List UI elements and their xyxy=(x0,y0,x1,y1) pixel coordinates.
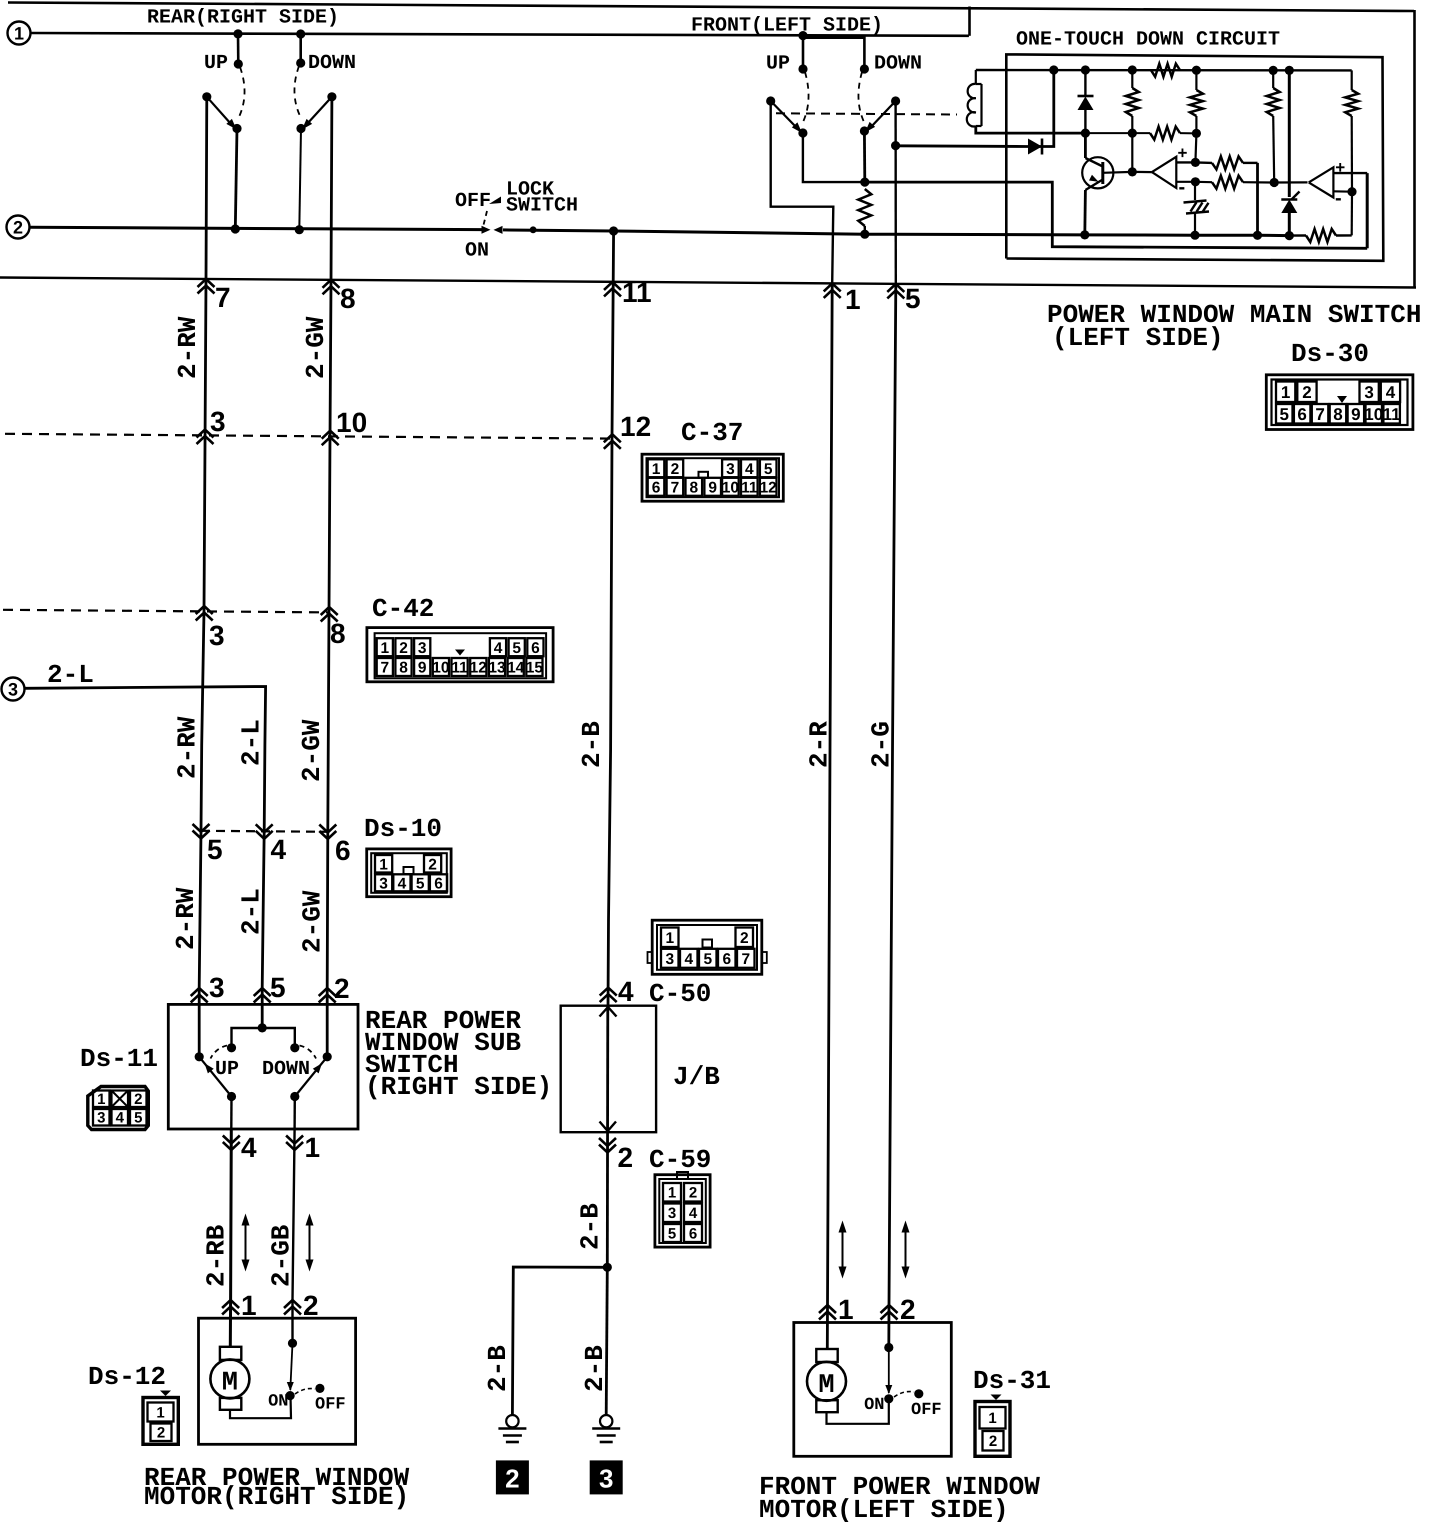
svg-text:5: 5 xyxy=(512,640,521,657)
svg-text:3: 3 xyxy=(726,461,735,478)
connector Ds-12 xyxy=(160,1391,171,1397)
svg-text:3: 3 xyxy=(209,620,225,651)
svg-text:1: 1 xyxy=(652,461,661,478)
svg-text:14: 14 xyxy=(507,660,525,677)
wire - 2-B to ground 3 xyxy=(606,1267,607,1414)
svg-text:13: 13 xyxy=(488,660,506,677)
wire 2-L - terminal 3 wire xyxy=(25,687,266,1028)
connector Ds-31 xyxy=(991,1395,1002,1401)
svg-text:11: 11 xyxy=(741,479,758,496)
svg-text:2: 2 xyxy=(399,640,408,657)
wire - rear UP contact to line 2 xyxy=(232,124,241,133)
svg-text:+: + xyxy=(1178,144,1188,163)
svg-text:8: 8 xyxy=(340,283,356,314)
wire - top border of main switch assembly xyxy=(8,3,1414,12)
node - rail junctions xyxy=(1049,65,1058,74)
svg-text:4: 4 xyxy=(241,1132,257,1163)
motor M2 - front window motor xyxy=(816,1349,837,1362)
op-amp U2 - comparator 2 xyxy=(1309,167,1334,197)
wire - front motor return loop xyxy=(827,1399,889,1424)
svg-text:11: 11 xyxy=(622,277,652,308)
svg-text:UP: UP xyxy=(215,1058,239,1081)
wire - bus line 2 xyxy=(30,227,482,229)
connector Ds-10 xyxy=(367,849,451,897)
svg-text:2-RB: 2-RB xyxy=(202,1224,232,1287)
wire - U2 minus input xyxy=(1333,190,1352,193)
sub-switch pin 3 chevron xyxy=(191,988,208,996)
svg-text:UP: UP xyxy=(766,53,790,76)
wire - R5 return to ground rail xyxy=(1256,163,1259,235)
svg-text:Ds-30: Ds-30 xyxy=(1291,339,1369,369)
wire - junction row to comparator network xyxy=(1085,132,1150,134)
pin 11 chevron xyxy=(604,282,621,290)
switch blade - front DOWN xyxy=(891,96,900,105)
svg-text:5: 5 xyxy=(764,461,773,478)
wire - transistor emitter column to line 2 xyxy=(1083,190,1086,235)
wire - bus line 1 xyxy=(31,33,969,36)
svg-text:10: 10 xyxy=(336,407,367,438)
wire - sub switch feed bar xyxy=(232,1028,295,1048)
svg-text:9: 9 xyxy=(418,660,427,677)
svg-text:OFF: OFF xyxy=(315,1396,346,1415)
wire - rear motor return loop xyxy=(230,1396,291,1419)
sub-switch pin 4 chevron xyxy=(223,1142,240,1150)
svg-text:1: 1 xyxy=(1281,383,1290,402)
wire - rear DOWN contact to line 2 xyxy=(296,124,305,133)
svg-text:7: 7 xyxy=(671,479,680,496)
svg-text:2: 2 xyxy=(989,1433,997,1450)
svg-text:2-B: 2-B xyxy=(576,1203,606,1250)
node - emitter column on line 2 xyxy=(1080,230,1089,239)
svg-text:2-RW: 2-RW xyxy=(173,316,203,379)
svg-text:2-RW: 2-RW xyxy=(173,716,203,779)
svg-text:3: 3 xyxy=(8,680,18,700)
wire 2-GW - rear down wire (pin 8) xyxy=(327,97,332,1057)
node - junction on line 2 xyxy=(231,224,240,233)
ground 3 xyxy=(600,1415,612,1427)
node - front DOWN fixed contact xyxy=(860,64,869,73)
node - resistor to line 2 xyxy=(860,230,869,239)
wire - U2 plus input from divider xyxy=(1333,172,1367,174)
svg-text:ON: ON xyxy=(465,240,489,263)
svg-text:5: 5 xyxy=(703,951,712,968)
box - junction block J/B xyxy=(561,1006,656,1132)
svg-text:M: M xyxy=(818,1371,834,1401)
svg-text:12: 12 xyxy=(470,660,487,677)
svg-text:3: 3 xyxy=(418,640,427,657)
svg-text:8: 8 xyxy=(399,660,408,677)
wire - minus column to bottom resistor xyxy=(1351,192,1354,236)
svg-text:10: 10 xyxy=(722,479,739,496)
svg-text:4: 4 xyxy=(116,1110,125,1127)
rear motor pin 2 chevron xyxy=(284,1300,301,1308)
svg-text:2-B: 2-B xyxy=(483,1345,513,1392)
svg-text:2-GB: 2-GB xyxy=(267,1224,297,1287)
svg-text:12: 12 xyxy=(620,411,651,442)
wire - front DOWN pivot down to pin 5 xyxy=(894,101,897,287)
wire - front motor breaker branch xyxy=(888,1348,890,1394)
svg-text:7: 7 xyxy=(215,282,231,313)
wire - dashed arc rear DOWN xyxy=(294,66,301,118)
switch blade - rear UP xyxy=(202,92,211,101)
svg-text:11: 11 xyxy=(451,660,468,677)
svg-text:2-B: 2-B xyxy=(580,1345,610,1392)
svg-text:Ds-10: Ds-10 xyxy=(364,814,442,844)
wire - 2-B branch to ground 2 xyxy=(512,1267,607,1415)
svg-text:C-59: C-59 xyxy=(649,1145,711,1175)
node - 2-B ground split xyxy=(603,1263,612,1272)
svg-text:4: 4 xyxy=(618,976,634,1007)
svg-text:1: 1 xyxy=(845,284,861,315)
wire - junction to one-touch circuit feed xyxy=(865,182,1367,248)
node - rear motor pin2 junction xyxy=(288,1339,297,1348)
svg-text:4: 4 xyxy=(745,461,754,478)
svg-text:5: 5 xyxy=(1280,405,1289,424)
op-amp U1 - comparator (output to base) xyxy=(1152,157,1176,188)
svg-text:3: 3 xyxy=(210,406,226,437)
diode D1 - feed diode xyxy=(1028,139,1042,155)
wire 2-RB - to rear motor pin 1 xyxy=(230,1129,231,1347)
node - front feed junction on line 1 xyxy=(798,31,807,40)
svg-text:M: M xyxy=(222,1369,238,1399)
svg-text:(LEFT SIDE): (LEFT SIDE) xyxy=(1052,323,1224,353)
wire - mechanical link to one-touch coil (dashed) xyxy=(776,113,957,114)
svg-text:2: 2 xyxy=(428,856,437,873)
svg-text:FRONT(LEFT SIDE): FRONT(LEFT SIDE) xyxy=(691,15,883,38)
connector Ds-11 xyxy=(88,1087,149,1130)
svg-text:1: 1 xyxy=(97,1091,105,1108)
C-50 chevron pin 4 xyxy=(600,988,617,996)
svg-text:9: 9 xyxy=(1351,405,1360,424)
switch - rear motor thermal OFF contact xyxy=(315,1384,324,1393)
resistor R8 - rail right column xyxy=(1351,70,1353,90)
wire 2-B - black ground wire from line 2 xyxy=(609,226,618,235)
wire - dashed pointer to lock switch xyxy=(484,211,488,225)
sub-switch pin 5 chevron xyxy=(254,988,271,996)
pin 7 chevron xyxy=(198,279,215,287)
node 2 - circled terminal 2 xyxy=(7,216,30,239)
svg-text:6: 6 xyxy=(335,835,351,866)
wire - dashed arc sub UP xyxy=(211,1046,228,1059)
wire 2-GB - to rear motor pin 2 xyxy=(293,1129,295,1343)
svg-text:2: 2 xyxy=(689,1185,697,1202)
svg-text:2-GW: 2-GW xyxy=(301,316,331,379)
svg-text:2-RW: 2-RW xyxy=(171,887,201,950)
svg-text:1: 1 xyxy=(14,24,24,44)
wire - tap to one-touch diode xyxy=(896,144,1026,147)
connector Ds-30 xyxy=(1266,375,1413,430)
connector C-42 xyxy=(367,628,553,682)
svg-text:Ds-31: Ds-31 xyxy=(973,1366,1051,1396)
wire - front UP pivot to pin 1 xyxy=(771,101,834,283)
svg-text:5: 5 xyxy=(668,1225,676,1242)
svg-text:OFF: OFF xyxy=(911,1401,942,1420)
svg-text:C-42: C-42 xyxy=(372,594,434,624)
crystal X1 - timing element marker xyxy=(1194,182,1196,200)
svg-text:2: 2 xyxy=(900,1294,916,1325)
svg-text:DOWN: DOWN xyxy=(262,1058,310,1081)
C-37 pass chevron pin 3 xyxy=(197,430,214,438)
node - rear DOWN fixed contact xyxy=(296,58,305,67)
motor M1 - rear window motor xyxy=(220,1347,241,1360)
svg-text:2: 2 xyxy=(303,1290,319,1321)
svg-text:3: 3 xyxy=(665,951,674,968)
svg-text:OFF: OFF xyxy=(455,190,491,213)
svg-text:ON: ON xyxy=(268,1393,288,1412)
svg-text:7: 7 xyxy=(380,660,389,677)
C-37 pass chevron pin 12 xyxy=(604,434,621,442)
node - junction on line 2 xyxy=(295,225,304,234)
sub-switch pin 2 chevron xyxy=(319,988,336,996)
svg-text:REAR(RIGHT SIDE): REAR(RIGHT SIDE) xyxy=(147,7,339,30)
node - clamp diode to coil lead xyxy=(1081,129,1090,138)
svg-text:11: 11 xyxy=(1383,405,1401,424)
svg-text:5: 5 xyxy=(270,972,286,1003)
svg-text:J/B: J/B xyxy=(673,1062,720,1092)
svg-text:MOTOR(LEFT SIDE): MOTOR(LEFT SIDE) xyxy=(759,1495,1009,1522)
svg-text:8: 8 xyxy=(1333,405,1342,424)
diode D2 - clamp diode on rail xyxy=(1084,70,1086,96)
box - rear power window sub switch xyxy=(168,1004,358,1129)
svg-text:1: 1 xyxy=(988,1410,996,1427)
svg-text:ONE-TOUCH DOWN CIRCUIT: ONE-TOUCH DOWN CIRCUIT xyxy=(1016,29,1280,52)
svg-text:10: 10 xyxy=(432,660,449,677)
C-37 pass chevron pin 10 xyxy=(322,431,339,439)
wire - dashed arc rear UP xyxy=(238,67,245,119)
pointer flag - lock switch OFF position xyxy=(489,197,501,205)
wire - thick column D from rail to zener xyxy=(1288,70,1291,197)
svg-text:1: 1 xyxy=(305,1132,321,1163)
Ds-10 chevron pin 4 xyxy=(256,831,273,839)
node - front motor pin2 junction xyxy=(884,1343,893,1352)
svg-text:5: 5 xyxy=(207,834,223,865)
transistor Q1 - one-touch driver (PNP) xyxy=(1082,157,1113,188)
wire - dashed arc sub DOWN xyxy=(300,1046,317,1059)
node - rear DOWN feed junction on line 1 xyxy=(296,29,305,38)
wire - section divider below main switch xyxy=(0,278,1416,288)
node - rear UP fixed contact xyxy=(234,59,243,68)
svg-text:15: 15 xyxy=(526,660,544,677)
resistor R3 - horizontal at junction row xyxy=(1150,127,1180,140)
wire - transistor base lead xyxy=(1103,171,1133,174)
svg-text:7: 7 xyxy=(741,951,750,968)
J/B exit chevron xyxy=(600,1122,617,1132)
svg-text:2: 2 xyxy=(671,461,680,478)
svg-text:5: 5 xyxy=(134,1110,142,1127)
direction arrow (2-RB) xyxy=(245,1222,247,1263)
svg-text:2-B: 2-B xyxy=(577,721,607,768)
wire - front DOWN contact down to junction xyxy=(860,126,869,135)
svg-text:3: 3 xyxy=(1364,383,1373,402)
svg-text:4: 4 xyxy=(684,951,693,968)
switch blade - sub DOWN xyxy=(323,1052,332,1061)
svg-text:7: 7 xyxy=(1315,405,1324,424)
wire - dashed connector line C-42 xyxy=(3,610,330,613)
svg-text:-: - xyxy=(1179,177,1186,199)
svg-text:2: 2 xyxy=(505,1463,519,1493)
svg-text:(RIGHT SIDE): (RIGHT SIDE) xyxy=(365,1072,552,1102)
svg-text:4: 4 xyxy=(271,834,287,865)
svg-text:2-GW: 2-GW xyxy=(297,719,327,782)
svg-text:2: 2 xyxy=(740,930,749,947)
svg-text:3: 3 xyxy=(209,972,225,1003)
svg-text:6: 6 xyxy=(434,875,443,892)
resistor R7 - vertical from rail (column C) xyxy=(1272,70,1274,88)
wire - R2 column to op-amp plus input xyxy=(1195,134,1196,162)
svg-text:9: 9 xyxy=(708,479,717,496)
wire - right frame edge xyxy=(1413,10,1416,287)
svg-text:8: 8 xyxy=(689,479,698,496)
wire - dashed connector line Ds-10 xyxy=(201,831,328,832)
svg-text:3: 3 xyxy=(599,1463,613,1493)
Ds-10 chevron pin 6 xyxy=(319,831,336,839)
wire - bus line 1 riser to top border xyxy=(968,7,971,36)
zener diode Z1 xyxy=(1281,200,1297,214)
svg-text:6: 6 xyxy=(689,1225,697,1242)
node - front UP fixed contact xyxy=(798,64,807,73)
wire - sub DOWN output to pin 1 xyxy=(290,1092,299,1101)
direction arrow (2-GB) xyxy=(309,1222,311,1263)
svg-text:5: 5 xyxy=(905,283,921,314)
svg-text:1: 1 xyxy=(379,856,388,873)
svg-text:SWITCH: SWITCH xyxy=(506,195,578,218)
svg-text:ON: ON xyxy=(864,1396,884,1415)
resistor R6 - minus input series xyxy=(1212,176,1243,189)
connector C-59 xyxy=(655,1175,710,1247)
svg-text:DOWN: DOWN xyxy=(308,52,356,75)
sub-switch pin 1 chevron xyxy=(286,1142,303,1150)
svg-text:C-37: C-37 xyxy=(681,418,743,448)
wire - coil bottom lead xyxy=(976,126,1084,133)
wire - dashed breaker linkage xyxy=(295,1389,315,1394)
svg-text:1: 1 xyxy=(380,640,389,657)
box - one-touch down circuit xyxy=(1006,54,1383,260)
J/B entry chevron xyxy=(600,1007,617,1017)
switch blade - rear DOWN xyxy=(327,92,336,101)
resistor - main switch pull-down xyxy=(858,189,871,226)
pin 5 chevron (front) xyxy=(887,284,904,292)
pin 1 chevron (front) xyxy=(824,283,841,291)
pin 8 chevron xyxy=(323,280,340,288)
svg-text:2: 2 xyxy=(13,218,23,238)
svg-text:2-R: 2-R xyxy=(805,721,835,768)
svg-text:4: 4 xyxy=(689,1205,698,1222)
box - rear power window motor xyxy=(199,1318,356,1444)
C-42 pass chevron pin 8 xyxy=(321,607,338,615)
resistor R4 - horizontal resistor on rail xyxy=(1151,64,1180,77)
wire - minus line to op-amp U2 output xyxy=(1274,181,1307,183)
svg-text:1: 1 xyxy=(838,1294,854,1325)
switch - front motor thermal OFF contact xyxy=(914,1389,923,1398)
wire - dashed arc front UP xyxy=(803,72,809,122)
resistor R2 - rail dropper 2 (vertical) xyxy=(1195,70,1197,90)
node - DOWN pivot tap to one-touch xyxy=(891,141,900,150)
svg-text:2-L: 2-L xyxy=(237,888,267,935)
node - rear UP feed junction on line 1 xyxy=(233,29,242,38)
connector C-37 xyxy=(642,454,783,501)
svg-text:1: 1 xyxy=(668,1185,676,1202)
svg-text:4: 4 xyxy=(398,875,407,892)
wire - front UP contact down xyxy=(798,128,807,137)
C-59 chevron pin 2 xyxy=(599,1145,616,1153)
wire - plus feedback riser xyxy=(1366,173,1369,248)
svg-text:2: 2 xyxy=(1302,383,1311,402)
direction arrow (2-R) xyxy=(842,1229,844,1270)
svg-text:3: 3 xyxy=(379,875,388,892)
svg-text:2: 2 xyxy=(618,1142,634,1173)
wire - internal supply rail xyxy=(976,69,1352,72)
wire 2-RW - rear up wire (pin 7) xyxy=(199,97,207,1057)
rear motor pin 1 chevron xyxy=(222,1300,239,1308)
svg-text:10: 10 xyxy=(1364,405,1383,424)
ground 2 xyxy=(506,1415,518,1427)
resistor R9 - bottom feedback resistor xyxy=(1306,229,1336,242)
resistor R1 - rail dropper (vertical) xyxy=(1131,70,1133,88)
connector C-50 xyxy=(652,920,762,974)
svg-text:6: 6 xyxy=(531,640,540,657)
svg-text:3: 3 xyxy=(668,1205,676,1222)
wire - sub UP output to pin 4 xyxy=(227,1092,236,1101)
switch - lock switch contacts on line 2 xyxy=(482,226,491,234)
node 3 - circled terminal 3 xyxy=(2,678,25,701)
svg-text:Ds-11: Ds-11 xyxy=(80,1044,158,1074)
front motor pin 1 chevron xyxy=(819,1305,836,1313)
svg-text:5: 5 xyxy=(416,875,425,892)
svg-text:Ds-12: Ds-12 xyxy=(88,1362,166,1392)
box - front power window motor xyxy=(794,1323,952,1457)
node - junction above resistor xyxy=(860,178,869,187)
wire - dashed connector line C-37 xyxy=(5,434,614,439)
node 1 - circled terminal 1 xyxy=(8,22,31,45)
svg-text:12: 12 xyxy=(760,479,777,496)
svg-text:1: 1 xyxy=(156,1404,164,1421)
switch blade - front UP xyxy=(766,96,775,105)
C-42 pass chevron pin 3 xyxy=(196,606,213,614)
svg-text:DOWN: DOWN xyxy=(874,53,922,76)
inductor - one-touch relay coil xyxy=(975,70,977,84)
node - minus input junction xyxy=(1347,187,1356,196)
wire 2-R - front motor pin 1 wire xyxy=(827,283,832,1349)
Ds-10 chevron pin 5 xyxy=(193,831,210,839)
svg-text:2: 2 xyxy=(334,973,350,1004)
svg-text:8: 8 xyxy=(330,618,346,649)
svg-text:2-G: 2-G xyxy=(867,721,897,768)
svg-text:1: 1 xyxy=(665,930,674,947)
wire - rear motor breaker branch xyxy=(290,1343,292,1390)
wire - U1 plus input xyxy=(1176,161,1195,163)
switch - front motor thermal ON contact xyxy=(884,1394,893,1403)
svg-text:6: 6 xyxy=(652,479,661,496)
svg-text:C-50: C-50 xyxy=(649,979,711,1009)
wire - dashed breaker linkage (front) xyxy=(894,1392,914,1397)
switch blade - sub UP xyxy=(195,1052,204,1061)
svg-text:2-L: 2-L xyxy=(237,719,267,766)
svg-text:2-L: 2-L xyxy=(47,660,94,690)
wire 2-G - front motor pin 2 wire xyxy=(889,287,896,1348)
svg-text:MOTOR(RIGHT SIDE): MOTOR(RIGHT SIDE) xyxy=(144,1482,409,1512)
svg-text:4: 4 xyxy=(1386,383,1396,402)
svg-text:2: 2 xyxy=(134,1091,142,1108)
svg-text:6: 6 xyxy=(722,951,731,968)
svg-text:3: 3 xyxy=(97,1110,105,1127)
front motor pin 2 chevron xyxy=(881,1305,898,1313)
wire - L feed to front DOWN contact xyxy=(803,38,864,69)
direction arrow (2-G) xyxy=(905,1229,907,1270)
switch - rear motor thermal ON contact xyxy=(286,1391,295,1400)
svg-text:6: 6 xyxy=(1297,405,1306,424)
svg-text:4: 4 xyxy=(494,640,503,657)
svg-text:2-GW: 2-GW xyxy=(298,890,328,953)
